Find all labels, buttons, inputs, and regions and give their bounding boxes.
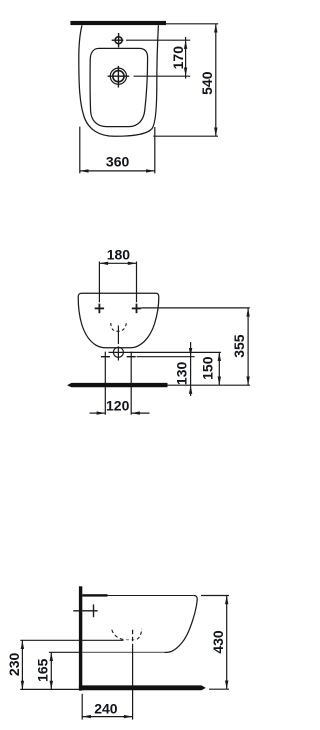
dim 230 xyxy=(21,640,23,689)
dashed drain cup side xyxy=(112,630,126,640)
wall bar xyxy=(79,586,82,690)
+ marks left/right of drain xyxy=(101,356,136,358)
svg-text:150: 150 xyxy=(199,356,215,380)
svg-text:165: 165 xyxy=(35,658,51,682)
drain crosshair big xyxy=(108,66,191,88)
fixing crosses xyxy=(95,304,142,314)
svg-text:360: 360 xyxy=(106,153,130,169)
svg-text:540: 540 xyxy=(199,71,215,95)
svg-text:230: 230 xyxy=(6,653,22,677)
line 165 level xyxy=(49,651,79,653)
dim 240 xyxy=(81,694,83,720)
bottom ext left xyxy=(20,688,79,690)
drain center line xyxy=(117,326,119,361)
svg-text:130: 130 xyxy=(174,362,190,386)
drain circle-cross xyxy=(113,347,123,357)
inner bowl xyxy=(90,48,147,126)
gray underside xyxy=(82,651,164,653)
wall bar xyxy=(70,21,166,25)
svg-text:120: 120 xyxy=(106,397,130,413)
svg-text:355: 355 xyxy=(231,334,247,358)
+ fixing on wall xyxy=(73,604,97,617)
dim 165 xyxy=(50,652,52,689)
body outline xyxy=(78,293,159,348)
dim 360 xyxy=(80,127,155,174)
dim 540 xyxy=(153,24,218,136)
outer outline xyxy=(79,25,159,136)
dim 120 xyxy=(90,412,150,414)
dim 355 xyxy=(247,308,249,385)
tap hole crosshair small xyxy=(112,33,191,47)
svg-text:430: 430 xyxy=(210,630,226,654)
floor bar xyxy=(79,685,206,690)
top edge thin + front profile xyxy=(108,596,198,653)
ext to 170 dim xyxy=(126,39,190,41)
dim 430 xyxy=(201,595,229,597)
floor bar xyxy=(67,383,168,387)
drain center line xyxy=(132,630,134,648)
line 230 level xyxy=(20,639,123,641)
ext +marks to 130 xyxy=(137,356,195,358)
svg-text:180: 180 xyxy=(107,246,131,262)
top edge thick xyxy=(82,594,107,596)
dashed drain cup xyxy=(111,323,126,332)
svg-text:170: 170 xyxy=(170,46,186,70)
svg-text:240: 240 xyxy=(94,700,118,716)
dim 130 xyxy=(190,342,192,396)
dim 170 xyxy=(185,37,187,79)
dim 150 xyxy=(218,352,220,385)
ext fixing holes to 355 xyxy=(141,307,250,309)
